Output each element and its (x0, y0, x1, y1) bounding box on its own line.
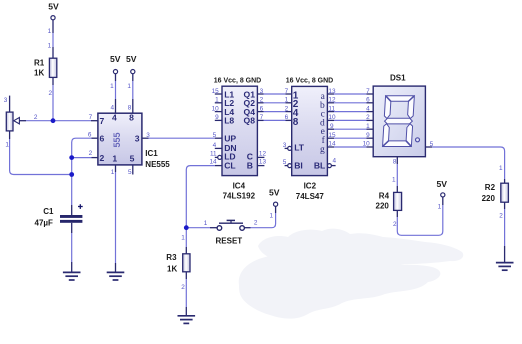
svg-text:5: 5 (213, 132, 217, 139)
svg-text:7: 7 (260, 114, 264, 121)
svg-text:74LS47: 74LS47 (296, 192, 325, 201)
pin number labels 555 top and 5V P2 P3 (110, 83, 132, 112)
wire 555 pin 2 to node B (72, 157, 98, 159)
svg-text:R4: R4 (379, 191, 390, 200)
svg-text:1: 1 (110, 83, 114, 90)
svg-text:7: 7 (285, 88, 289, 95)
power 5V P1 (48, 2, 59, 20)
svg-text:9: 9 (366, 132, 370, 139)
svg-text:13: 13 (259, 159, 267, 166)
ground for R2 (496, 263, 514, 271)
svg-text:47µF: 47µF (35, 219, 54, 228)
svg-text:3: 3 (260, 88, 264, 95)
node C junction (69, 172, 74, 177)
svg-text:3: 3 (146, 132, 150, 139)
wire C1 to ground (71, 223, 73, 272)
svg-text:13: 13 (328, 88, 336, 95)
wire IC2 a pin 13 to DS1 pin 7 (327, 93, 373, 95)
wire 5V P1 to R1 pin 1 (52, 20, 54, 58)
pin number labels R4 and 5V P5 (392, 177, 442, 229)
label IC4 74LS192 (223, 181, 256, 200)
svg-text:555: 555 (112, 132, 122, 147)
ground for C1 (63, 272, 81, 280)
svg-text:9: 9 (330, 123, 334, 130)
pin number labels DS1 right and bottom (393, 141, 434, 166)
svg-text:8: 8 (393, 159, 397, 166)
label IC1 NE555 (145, 149, 170, 169)
wire node B to node C (71, 158, 73, 175)
label DS1 (390, 74, 406, 83)
svg-text:BL: BL (314, 160, 325, 170)
svg-text:7: 7 (366, 88, 370, 95)
svg-text:7: 7 (89, 114, 93, 121)
wire IC4 L1 pin 15 stub (215, 93, 222, 95)
node B junction (69, 155, 74, 160)
wire IC4 DN pin 4 stub (215, 147, 222, 149)
pin number labels IC2 right (328, 88, 336, 165)
pin number labels IC4 right (259, 88, 267, 166)
wire 555 pin 1 to ground (115, 165, 117, 272)
pin number labels IC4 left (209, 88, 219, 166)
svg-text:L8: L8 (224, 116, 234, 126)
resistor R1 (34, 58, 57, 77)
svg-text:5: 5 (430, 141, 434, 148)
wire IC2 BL pin 4 stub and bubble (327, 164, 335, 168)
power 5V P5 (436, 179, 447, 197)
svg-text:15: 15 (212, 88, 220, 95)
pin number labels R2 (499, 165, 503, 220)
svg-text:R2: R2 (485, 183, 496, 192)
svg-text:BI: BI (294, 160, 303, 170)
svg-text:5: 5 (283, 159, 287, 166)
svg-text:10: 10 (328, 114, 336, 121)
wire DS1 pin 8 to R4 pin 1 (396, 157, 398, 193)
wire DS1 pin 5 to R2 pin 1 (425, 147, 504, 183)
wire node A to 555 pin 7 (53, 120, 98, 122)
pin number labels 555 left (88, 114, 93, 157)
wire IC2 LT pin 3 stub and bubble (285, 146, 292, 150)
svg-text:IC4: IC4 (233, 181, 246, 190)
svg-text:g: g (320, 145, 325, 155)
svg-text:3: 3 (283, 142, 287, 149)
wire IC4 CL pin 14 to node D (186, 166, 222, 228)
svg-text:2: 2 (366, 114, 370, 121)
svg-text:5: 5 (128, 169, 132, 176)
counter IC4 74LS192 (222, 86, 257, 175)
power 5V P4 (269, 188, 280, 207)
wire potentiometer pin 1 to node C (10, 131, 72, 175)
svg-text:1: 1 (127, 83, 131, 90)
resistor R4 (376, 191, 402, 210)
wire IC4 B pin 13 stub (257, 165, 264, 167)
svg-text:R3: R3 (166, 253, 177, 262)
wire IC2 BI pin 5 stub and bubble (285, 164, 292, 168)
svg-text:1K: 1K (167, 265, 177, 274)
wire potentiometer wiper to node A (19, 120, 53, 122)
pin number labels 5V P1 and R1 (48, 28, 53, 97)
wire IC2 d pin 10 to DS1 pin 2 (327, 119, 373, 121)
svg-text:220: 220 (482, 194, 496, 203)
svg-text:11: 11 (328, 105, 335, 112)
svg-text:1: 1 (48, 42, 52, 49)
svg-text:4: 4 (333, 158, 337, 165)
svg-text:12: 12 (328, 97, 336, 104)
svg-text:2: 2 (260, 97, 264, 104)
ground for R3 (178, 316, 196, 324)
svg-text:1: 1 (48, 28, 52, 35)
switch RESET (216, 220, 245, 245)
wire IC4 LD pin 11 stub and bubble (215, 155, 222, 159)
svg-text:B: B (247, 160, 253, 170)
watermark blob (239, 229, 463, 319)
svg-text:1: 1 (5, 141, 9, 148)
wire 5V P3 to 555 pin 8 (132, 74, 134, 113)
svg-text:4: 4 (213, 142, 217, 149)
pin number labels DS1 left (363, 88, 371, 148)
svg-text:IC2: IC2 (304, 181, 317, 190)
svg-text:6: 6 (366, 97, 370, 104)
svg-text:1K: 1K (34, 69, 44, 78)
pin number labels potentiometer (4, 97, 38, 149)
pin number labels 555 bottom and right (111, 132, 150, 176)
svg-text:16 Vcc, 8 GND: 16 Vcc, 8 GND (286, 77, 333, 84)
wire RESET pin 2 to 5V P4 (244, 206, 275, 227)
svg-text:1: 1 (499, 165, 503, 172)
svg-text:2: 2 (48, 90, 52, 97)
wire IC2 e pin 9 to DS1 pin 1 (327, 128, 373, 130)
resistor R3 (166, 253, 190, 274)
wire 555 pin 3 to IC4 UP pin 5 (142, 137, 222, 139)
svg-text:1: 1 (112, 153, 117, 163)
wire potentiometer pin 3 stub (9, 96, 11, 113)
svg-text:5V: 5V (436, 179, 447, 189)
wire IC4 Q2 pin 2 to IC2 pin 1 (257, 102, 291, 104)
svg-text:7: 7 (100, 116, 105, 126)
svg-text:10: 10 (363, 141, 371, 148)
wire IC2 b pin 12 to DS1 pin 6 (327, 102, 373, 104)
svg-text:15: 15 (328, 132, 336, 139)
svg-text:1: 1 (366, 123, 370, 130)
svg-text:4: 4 (111, 105, 115, 112)
svg-text:220: 220 (376, 201, 390, 210)
label IC2 74LS47 (296, 181, 325, 201)
svg-text:10: 10 (212, 105, 220, 112)
svg-text:1: 1 (215, 97, 219, 104)
svg-text:1: 1 (392, 177, 396, 184)
wire IC4 Q4 pin 6 to IC2 pin 2 (257, 111, 291, 113)
svg-text:16 Vcc, 8 GND: 16 Vcc, 8 GND (214, 77, 261, 84)
wire node D to R3 pin 1 (185, 228, 187, 254)
svg-text:1: 1 (438, 204, 442, 211)
svg-text:6: 6 (285, 114, 289, 121)
svg-text:6: 6 (100, 134, 105, 144)
wire 555 pin 5 stub (132, 165, 134, 175)
node A junction (51, 118, 56, 123)
svg-text:6: 6 (260, 105, 264, 112)
svg-text:2: 2 (499, 213, 503, 220)
wire R3 pin 2 to ground (185, 272, 187, 316)
svg-text:C1: C1 (43, 207, 54, 216)
wire IC2 g pin 14 to DS1 pin 10 (327, 146, 373, 148)
svg-text:8: 8 (293, 117, 299, 128)
pin number labels RESET and 5V P4 (204, 212, 274, 226)
potentiometer RP1 (6, 112, 19, 131)
wire IC2 f pin 15 to DS1 pin 9 (327, 137, 373, 139)
capacitor C1 (35, 204, 83, 227)
wire IC4 L2 pin 1 stub (215, 102, 222, 104)
resistor R2 (482, 183, 509, 203)
svg-text:9: 9 (215, 114, 219, 121)
wire IC4 Q8 pin 7 to IC2 pin 6 (257, 119, 291, 121)
svg-text:IC1: IC1 (145, 149, 158, 158)
wire 555 pin 6 to node B (72, 138, 98, 157)
svg-text:2: 2 (254, 220, 258, 227)
svg-text:3: 3 (4, 97, 8, 104)
display DS1 seven segment (373, 86, 425, 157)
svg-text:3: 3 (135, 134, 140, 144)
wire R4 pin 2 to 5V P5 (397, 197, 443, 235)
wire IC4 L8 pin 9 stub (215, 119, 222, 121)
svg-text:5V: 5V (110, 54, 121, 64)
label 16 Vcc, 8 GND for IC4 (214, 77, 261, 84)
svg-text:Q8: Q8 (244, 116, 256, 126)
svg-text:1: 1 (270, 212, 274, 219)
pin number labels IC2 left (283, 88, 289, 166)
wire IC4 L4 pin 10 stub (215, 111, 222, 113)
svg-text:11: 11 (210, 150, 217, 157)
power 5V P2 (110, 54, 121, 73)
svg-text:1: 1 (204, 220, 208, 227)
svg-text:14: 14 (328, 141, 336, 148)
wire node D to RESET pin 1 (186, 227, 216, 229)
svg-text:4: 4 (112, 113, 117, 123)
svg-text:NE555: NE555 (145, 160, 170, 169)
op timer IC1 555 (98, 113, 142, 165)
decoder IC2 74LS47 (292, 86, 328, 175)
svg-text:2: 2 (285, 105, 289, 112)
svg-text:2: 2 (34, 114, 38, 121)
svg-text:74LS192: 74LS192 (223, 192, 256, 201)
svg-text:LT: LT (294, 143, 305, 153)
svg-text:2: 2 (393, 221, 397, 228)
ground for 555 pin 1 (107, 272, 125, 280)
node D junction (184, 225, 189, 230)
svg-text:RESET: RESET (216, 236, 243, 245)
svg-text:2: 2 (181, 284, 185, 291)
label 16 Vcc, 8 GND for IC2 (286, 77, 333, 84)
wire IC2 c pin 11 to DS1 pin 4 (327, 111, 373, 113)
svg-text:6: 6 (88, 131, 92, 138)
svg-text:2: 2 (89, 150, 93, 157)
svg-text:R1: R1 (34, 58, 45, 67)
wire IC4 Q1 pin 3 to IC2 pin 7 (257, 93, 291, 95)
wire IC4 C pin 12 stub (257, 156, 264, 158)
svg-text:5V: 5V (126, 54, 137, 64)
svg-text:1: 1 (285, 97, 289, 104)
wire R1 pin 2 to node A (52, 77, 54, 120)
power 5V P3 (126, 54, 137, 73)
svg-text:12: 12 (259, 150, 267, 157)
svg-text:2: 2 (100, 153, 105, 163)
svg-text:5V: 5V (269, 188, 280, 198)
svg-text:5V: 5V (48, 2, 59, 12)
svg-text:DS1: DS1 (390, 74, 406, 83)
svg-text:CL: CL (224, 160, 235, 170)
svg-text:8: 8 (128, 105, 132, 112)
wire R2 pin 2 to ground (504, 202, 506, 262)
wire node C to capacitor C1 (71, 175, 73, 216)
pin number labels R3 (181, 235, 185, 292)
svg-text:14: 14 (209, 159, 217, 166)
svg-text:1: 1 (181, 235, 185, 242)
svg-text:5: 5 (130, 153, 135, 163)
svg-text:8: 8 (129, 113, 134, 123)
svg-text:1: 1 (111, 169, 115, 176)
svg-text:4: 4 (366, 105, 370, 112)
wire 5V P2 to 555 pin 4 (115, 74, 117, 113)
